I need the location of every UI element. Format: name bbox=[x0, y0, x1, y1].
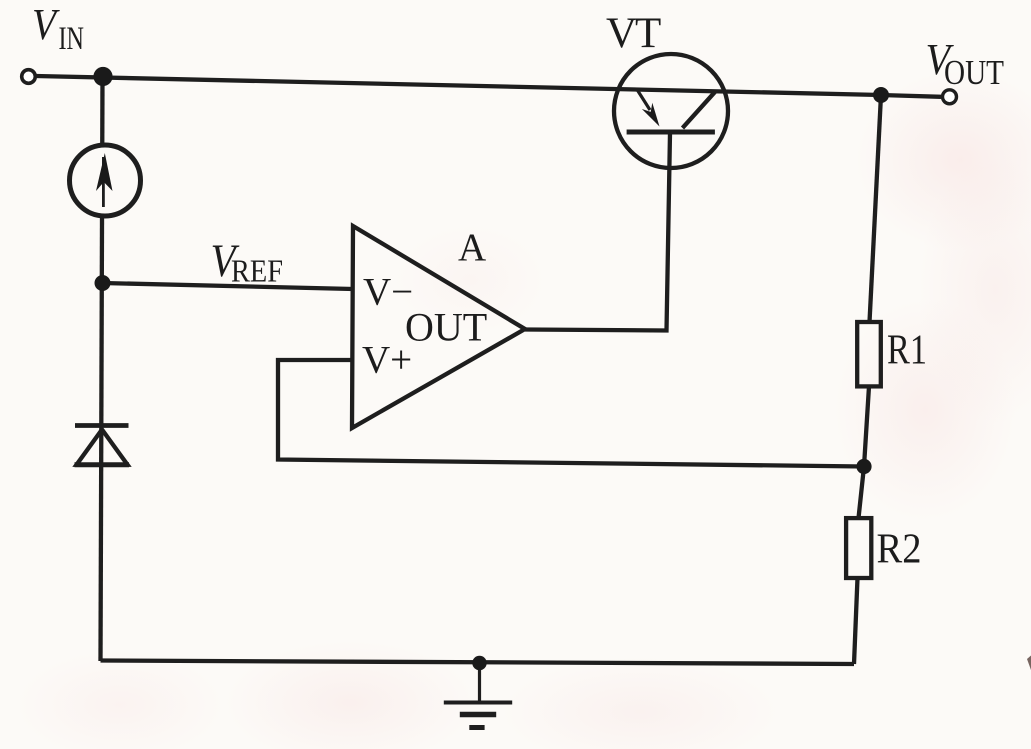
svg-text:VT: VT bbox=[606, 10, 661, 57]
svg-text:R2: R2 bbox=[877, 527, 922, 573]
svg-text:V: V bbox=[32, 0, 61, 49]
svg-text:REF: REF bbox=[231, 253, 283, 289]
svg-text:R1: R1 bbox=[887, 328, 927, 374]
svg-text:OUT: OUT bbox=[944, 53, 1004, 92]
svg-text:V+: V+ bbox=[362, 339, 412, 382]
svg-text:IN: IN bbox=[59, 21, 85, 57]
svg-text:A: A bbox=[458, 226, 486, 269]
svg-text:OUT: OUT bbox=[405, 305, 487, 350]
